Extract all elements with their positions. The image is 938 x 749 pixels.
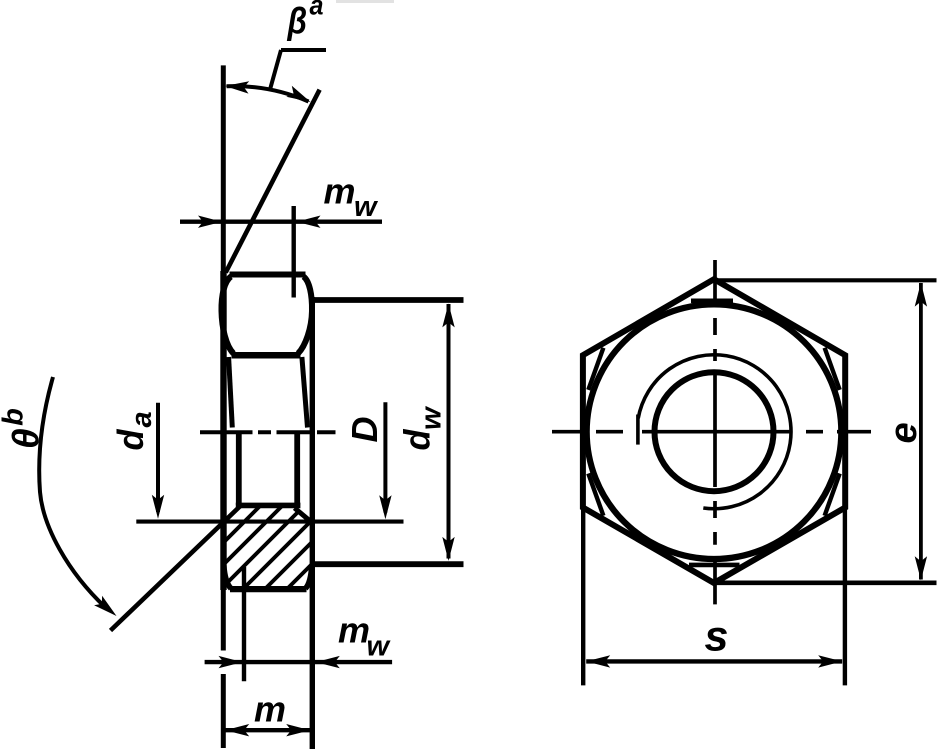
- vertical centerline (right view): [713, 260, 717, 604]
- d_w bottom extension line: [311, 561, 464, 567]
- bearing face / extension line V1 (upper segment): [221, 65, 226, 650]
- axis centerline (left view): [200, 430, 336, 434]
- beta leader slant: [270, 50, 281, 89]
- hexagon outline: [583, 279, 845, 583]
- svg-text:m: m: [254, 689, 286, 730]
- d_w arrowhead down: [442, 537, 454, 561]
- thread bore circle: [655, 372, 774, 491]
- flat edge taper line (left): [229, 357, 233, 428]
- beta arc arrowhead left: [225, 81, 249, 93]
- svg-text:a: a: [310, 0, 324, 21]
- chamfer arc A1 (left): [221, 277, 233, 354]
- nut top corner face line H1: [230, 272, 306, 278]
- svg-text:d: d: [110, 429, 151, 451]
- svg-text:a: a: [126, 411, 158, 427]
- beta angle slant line: [226, 90, 320, 273]
- m_w bottom arrowhead left: [219, 656, 243, 668]
- svg-text:β: β: [287, 1, 307, 42]
- corner chamfer chord left-bottom: [588, 474, 603, 516]
- thread major-diameter arc: [638, 355, 791, 509]
- s dimension line: [586, 659, 842, 663]
- horizontal centerline (right view): [552, 430, 871, 434]
- s arrowhead right: [818, 655, 842, 667]
- d_w top extension line: [314, 297, 464, 303]
- theta arc arrowhead: [94, 596, 116, 616]
- D dimension arrow line: [383, 402, 387, 512]
- d_w arrowhead up: [442, 303, 454, 327]
- countersink chamfer line extended (theta line): [111, 506, 241, 631]
- m_w bottom dimension line: [205, 660, 393, 664]
- wrenching-height tick T2 (bottom): [242, 567, 246, 681]
- s right extension line: [843, 509, 847, 685]
- d_a arrowhead: [152, 495, 164, 519]
- m_w top arrowhead left: [198, 216, 222, 228]
- svg-text:e: e: [883, 422, 925, 443]
- s arrowhead left: [586, 655, 610, 667]
- chamfer arc A2 (right): [298, 277, 312, 354]
- d_w dimension line: [447, 304, 451, 559]
- m_w top arrowhead right: [297, 216, 321, 228]
- theta leader arc: [39, 377, 105, 607]
- svg-text:D: D: [344, 417, 385, 443]
- s left extension line: [581, 509, 585, 685]
- corner chamfer chord top: [691, 298, 733, 303]
- d_a dimension arrow line: [156, 403, 160, 512]
- beta leader horizontal: [281, 48, 326, 52]
- bearing face thick segment: [220, 271, 226, 590]
- outer chamfer arc bottom-left: [224, 566, 231, 589]
- m_w top dimension line: [180, 219, 382, 223]
- e dimension line: [919, 283, 923, 580]
- m dimension line: [225, 728, 310, 732]
- wrenching-height tick T1 (top): [292, 206, 296, 298]
- svg-text:m: m: [338, 610, 370, 651]
- thread major-diameter thin line / da-D reference line: [136, 520, 403, 524]
- m arrowhead right: [286, 724, 310, 736]
- svg-text:s: s: [705, 613, 729, 661]
- top face line V2: [310, 297, 315, 749]
- countersink edge line (left): [236, 433, 242, 505]
- e top extension line: [716, 278, 937, 282]
- flat edge taper line (right): [302, 357, 308, 428]
- svg-text:d: d: [397, 429, 438, 451]
- bearing face / extension line V1 (lower segment): [221, 674, 226, 748]
- countersink chamfer diagonal (right): [295, 508, 313, 523]
- beta arc arrowhead right: [286, 86, 310, 102]
- thread minor-diameter line (hole bottom): [236, 503, 301, 509]
- svg-text:m: m: [324, 171, 356, 212]
- corner chamfer chord right-top: [825, 348, 840, 390]
- svg-text:w: w: [416, 405, 448, 430]
- m arrowhead left: [225, 724, 249, 736]
- D arrowhead: [379, 495, 391, 519]
- countersink edge line (right): [294, 433, 300, 505]
- beta angle arc: [227, 86, 309, 101]
- outer chamfer arc bottom-right: [306, 566, 312, 589]
- hatch lines of section: [119, 440, 457, 625]
- e bottom extension line: [714, 580, 937, 585]
- corner chamfer chord bottom: [689, 563, 740, 568]
- e arrowhead down: [915, 556, 927, 580]
- section outer edge (hatch bottom): [230, 586, 307, 592]
- hex flat edge line H2: [232, 352, 301, 359]
- chamfer circle: [587, 304, 842, 559]
- e arrowhead up: [915, 283, 927, 307]
- svg-text:w: w: [354, 191, 379, 223]
- scan artifact top edge: [336, 0, 394, 3]
- corner chamfer chord left-top: [588, 348, 603, 390]
- m_w bottom arrowhead right: [316, 656, 340, 668]
- corner chamfer chord right-bottom: [825, 474, 840, 516]
- svg-text:w: w: [367, 631, 392, 663]
- thread arc tail: [636, 415, 640, 445]
